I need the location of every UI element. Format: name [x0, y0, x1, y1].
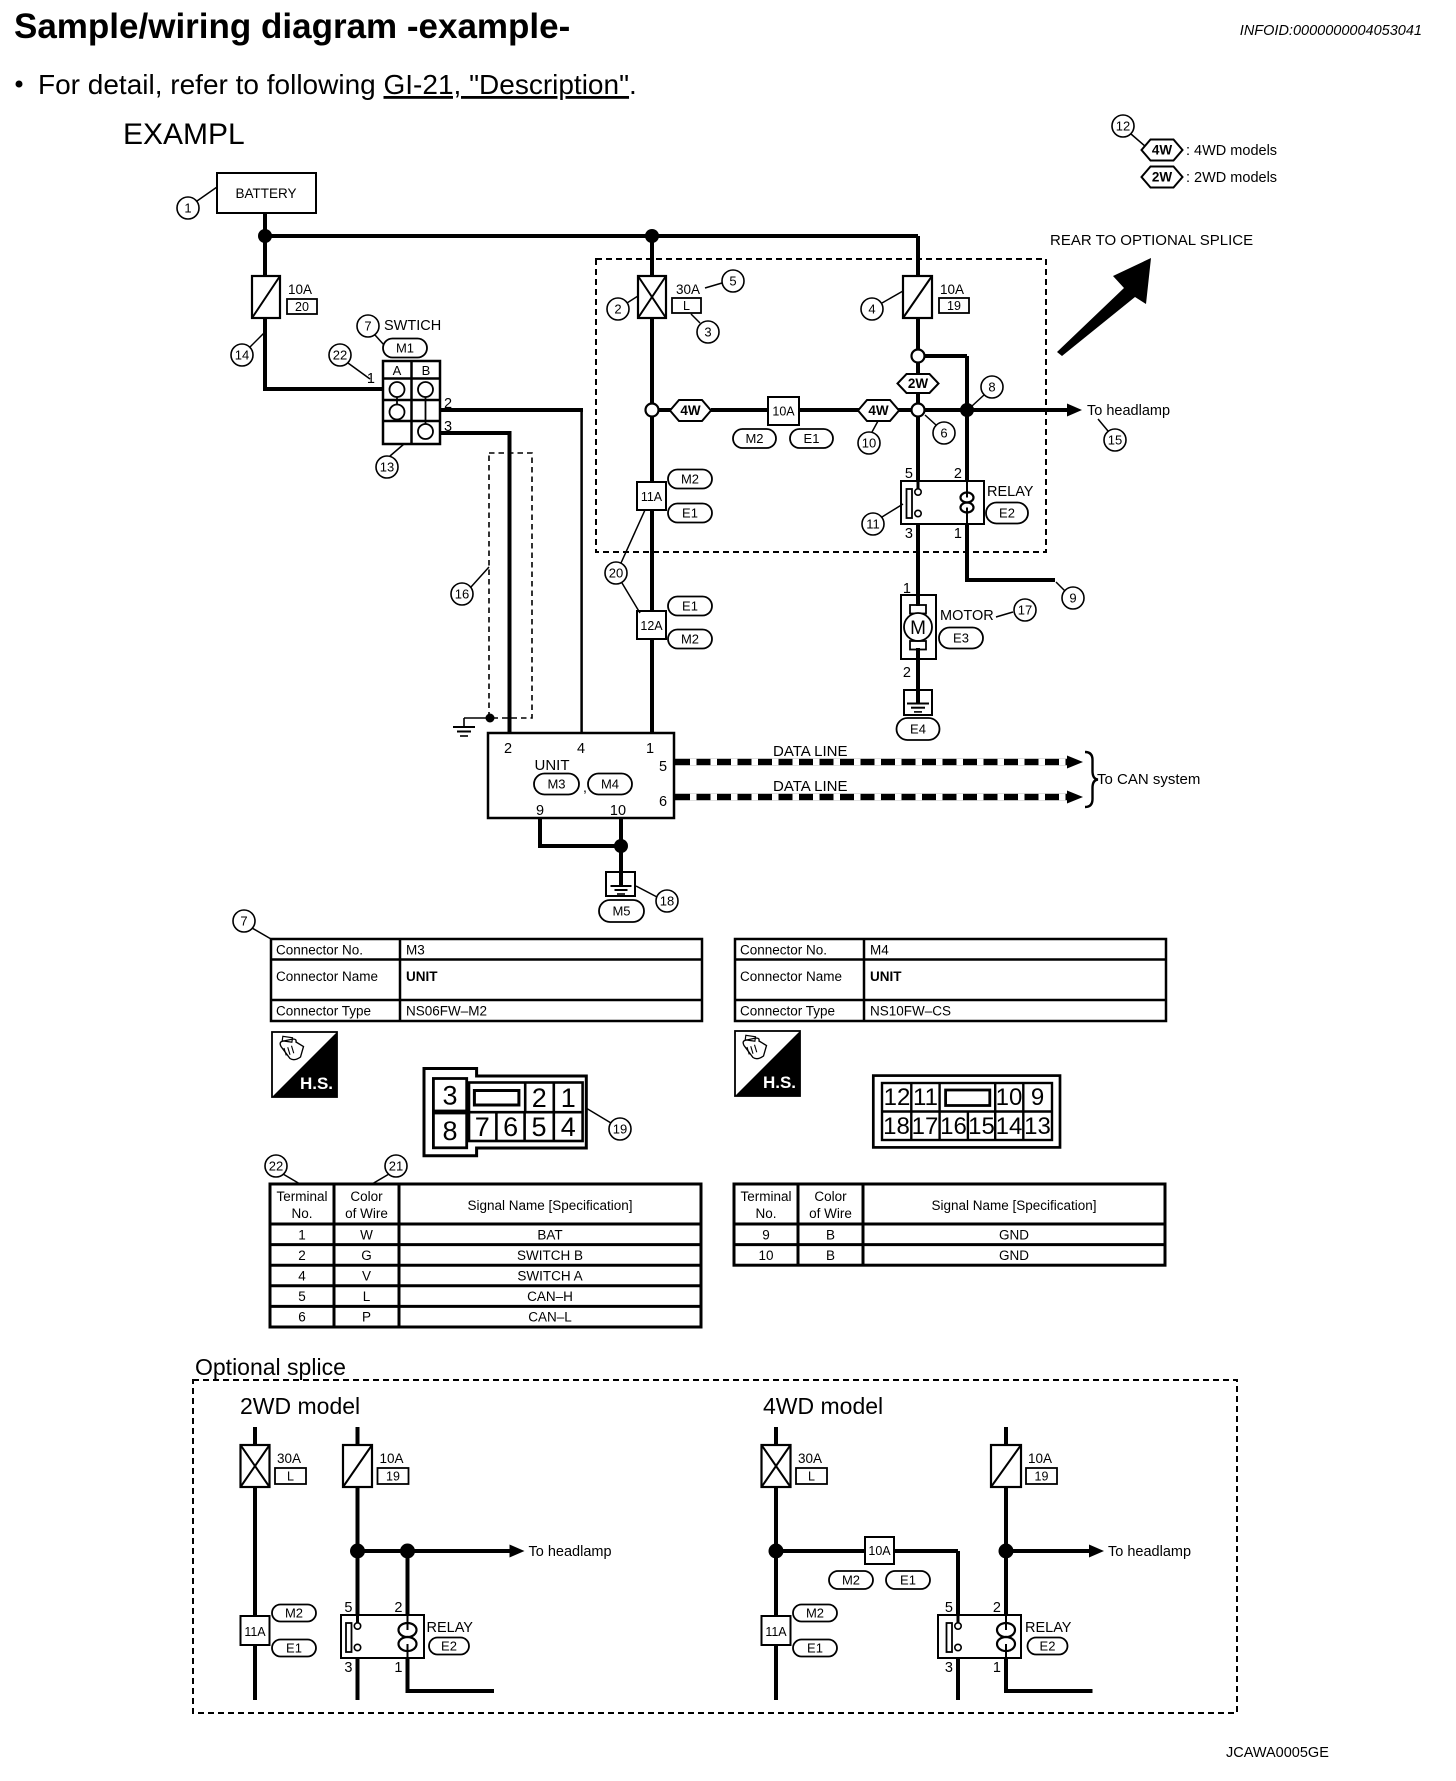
svg-text:NS06FW–M2: NS06FW–M2: [406, 1004, 487, 1019]
svg-text:E2: E2: [999, 506, 1015, 521]
svg-text:M2: M2: [681, 632, 699, 647]
svg-text:M2: M2: [842, 1573, 860, 1588]
svg-text:L: L: [287, 1470, 294, 1484]
svg-text:8: 8: [988, 380, 995, 395]
svg-text:GND: GND: [999, 1227, 1029, 1242]
svg-text:B: B: [826, 1248, 835, 1263]
svg-text:2W: 2W: [1152, 170, 1173, 185]
svg-text:Connector No.: Connector No.: [740, 943, 827, 958]
svg-text:E1: E1: [900, 1573, 916, 1588]
svg-text:UNIT: UNIT: [535, 757, 570, 774]
svg-text:E1: E1: [804, 431, 820, 446]
svg-text:30A: 30A: [798, 1451, 822, 1466]
svg-text:6: 6: [940, 426, 947, 441]
svg-text:EXAMPL: EXAMPL: [123, 118, 245, 151]
svg-text:13: 13: [380, 460, 394, 475]
svg-text:E3: E3: [953, 631, 969, 646]
svg-text:13: 13: [1024, 1113, 1051, 1140]
svg-text:1: 1: [646, 741, 654, 757]
svg-text:16: 16: [940, 1113, 967, 1140]
svg-text:8: 8: [443, 1116, 458, 1146]
svg-text:1: 1: [993, 1660, 1001, 1676]
svg-text:,: ,: [583, 779, 587, 795]
svg-text:6: 6: [503, 1112, 518, 1142]
svg-text:9: 9: [762, 1227, 770, 1242]
svg-text:10A: 10A: [1028, 1451, 1052, 1466]
svg-text:: 2WD models: : 2WD models: [1186, 170, 1277, 186]
svg-text:4: 4: [298, 1269, 306, 1284]
svg-text:L: L: [808, 1470, 815, 1484]
svg-text:M2: M2: [285, 1606, 303, 1621]
svg-text:4W: 4W: [1152, 143, 1173, 158]
svg-text:2: 2: [614, 302, 621, 317]
svg-text:12A: 12A: [640, 619, 663, 633]
svg-text:9: 9: [1031, 1084, 1044, 1111]
svg-text:G: G: [361, 1248, 372, 1263]
svg-text:Terminal: Terminal: [276, 1189, 327, 1204]
svg-text:H.S.: H.S.: [763, 1073, 796, 1092]
svg-text:DATA LINE: DATA LINE: [773, 743, 847, 760]
svg-text:2: 2: [903, 665, 911, 681]
svg-text:1: 1: [184, 201, 191, 216]
svg-text:M4: M4: [601, 777, 619, 792]
svg-text:15: 15: [1108, 433, 1122, 448]
svg-text:3: 3: [905, 526, 913, 542]
svg-text:6: 6: [298, 1310, 306, 1325]
svg-text:2: 2: [504, 741, 512, 757]
svg-text:UNIT: UNIT: [870, 969, 902, 984]
svg-text:E1: E1: [682, 599, 698, 614]
svg-text:of Wire: of Wire: [809, 1206, 852, 1221]
svg-text:7: 7: [475, 1112, 490, 1142]
svg-text:3: 3: [704, 325, 711, 340]
svg-text:5: 5: [298, 1289, 306, 1304]
svg-text:19: 19: [613, 1122, 627, 1137]
svg-text:M4: M4: [870, 943, 889, 958]
svg-text:SWITCH B: SWITCH B: [517, 1248, 583, 1263]
svg-text:M1: M1: [396, 341, 414, 356]
svg-text:No.: No.: [755, 1206, 776, 1221]
svg-text:2W: 2W: [908, 376, 929, 391]
svg-text:NS10FW–CS: NS10FW–CS: [870, 1004, 951, 1019]
svg-text:To headlamp: To headlamp: [1087, 403, 1170, 419]
svg-text:E1: E1: [682, 506, 698, 521]
svg-text:4W: 4W: [868, 403, 889, 418]
svg-text:GND: GND: [999, 1248, 1029, 1263]
svg-text:A: A: [393, 363, 402, 378]
svg-text:22: 22: [269, 1159, 283, 1174]
svg-text:9: 9: [1069, 591, 1076, 606]
svg-text:Color: Color: [814, 1189, 847, 1204]
svg-text:30A: 30A: [676, 282, 700, 297]
svg-text:11: 11: [866, 517, 880, 532]
svg-text:M2: M2: [806, 1606, 824, 1621]
svg-text:REAR TO OPTIONAL SPLICE: REAR TO OPTIONAL SPLICE: [1050, 232, 1253, 249]
svg-text:SWITCH A: SWITCH A: [517, 1269, 582, 1284]
svg-text:18: 18: [660, 894, 674, 909]
svg-text:17: 17: [1018, 603, 1032, 618]
svg-text:2: 2: [993, 1600, 1001, 1616]
svg-text:DATA LINE: DATA LINE: [773, 778, 847, 795]
svg-text:P: P: [362, 1310, 371, 1325]
svg-text:JCAWA0005GE: JCAWA0005GE: [1226, 1745, 1329, 1761]
svg-text:7: 7: [364, 319, 371, 334]
svg-text:To CAN system: To CAN system: [1097, 771, 1200, 788]
svg-text:5: 5: [659, 759, 667, 775]
svg-text:B: B: [422, 363, 431, 378]
svg-text:Optional splice: Optional splice: [195, 1354, 346, 1380]
svg-text:Color: Color: [350, 1189, 383, 1204]
svg-text:10A: 10A: [772, 405, 795, 419]
svg-text:2: 2: [532, 1083, 547, 1113]
svg-text:Connector Name: Connector Name: [740, 969, 842, 984]
svg-text:5: 5: [729, 274, 736, 289]
svg-text:of Wire: of Wire: [345, 1206, 388, 1221]
svg-text:14: 14: [235, 348, 249, 363]
svg-text:6: 6: [659, 794, 667, 810]
svg-text:21: 21: [389, 1159, 403, 1174]
svg-text:11A: 11A: [641, 490, 663, 504]
svg-text:9: 9: [536, 803, 544, 819]
svg-text:11A: 11A: [765, 1625, 787, 1639]
svg-text:12: 12: [884, 1084, 911, 1111]
svg-text:14: 14: [996, 1113, 1023, 1140]
svg-text:2WD model: 2WD model: [240, 1393, 360, 1419]
svg-text:To headlamp: To headlamp: [1108, 1544, 1191, 1560]
svg-text:M3: M3: [406, 943, 425, 958]
svg-text:For detail, refer to following: For detail, refer to following GI-21, "D…: [38, 69, 637, 100]
svg-text:Connector No.: Connector No.: [276, 943, 363, 958]
svg-text:5: 5: [905, 466, 913, 482]
svg-text:L: L: [683, 299, 690, 313]
svg-text:SWTICH: SWTICH: [384, 318, 441, 334]
svg-text:10: 10: [996, 1084, 1023, 1111]
svg-text:BATTERY: BATTERY: [235, 186, 296, 201]
svg-text:No.: No.: [291, 1206, 312, 1221]
svg-text:19: 19: [1035, 1470, 1049, 1484]
svg-text:INFOID:0000000004053041: INFOID:0000000004053041: [1240, 23, 1422, 39]
svg-text:4: 4: [868, 302, 875, 317]
svg-text:11A: 11A: [244, 1625, 266, 1639]
svg-text:Terminal: Terminal: [740, 1189, 791, 1204]
svg-text:V: V: [362, 1269, 371, 1284]
svg-text:E4: E4: [910, 722, 926, 737]
svg-text:E2: E2: [1040, 1639, 1056, 1654]
svg-text:E1: E1: [286, 1641, 302, 1656]
svg-text:3: 3: [443, 1080, 458, 1110]
svg-text:10: 10: [862, 436, 876, 451]
svg-text:10: 10: [610, 803, 626, 819]
svg-text:10A: 10A: [288, 282, 312, 297]
svg-text:W: W: [360, 1227, 373, 1242]
svg-text:RELAY: RELAY: [987, 484, 1034, 500]
svg-text:: 4WD models: : 4WD models: [1186, 143, 1277, 159]
svg-text:Connector Type: Connector Type: [740, 1004, 835, 1019]
svg-text:7: 7: [240, 914, 247, 929]
svg-text:11: 11: [913, 1084, 938, 1111]
svg-text:15: 15: [968, 1113, 995, 1140]
svg-text:1: 1: [954, 526, 962, 542]
svg-text:4WD model: 4WD model: [763, 1393, 883, 1419]
svg-text:3: 3: [344, 1660, 352, 1676]
svg-text:20: 20: [295, 300, 309, 314]
svg-text:E2: E2: [441, 1639, 457, 1654]
svg-text:4: 4: [577, 741, 585, 757]
svg-text:E1: E1: [807, 1641, 823, 1656]
svg-text:To headlamp: To headlamp: [529, 1544, 612, 1560]
svg-text:BAT: BAT: [537, 1227, 562, 1242]
svg-text:10A: 10A: [868, 1544, 891, 1558]
svg-text:CAN–H: CAN–H: [527, 1289, 573, 1304]
svg-text:20: 20: [609, 566, 623, 581]
svg-text:M3: M3: [547, 777, 565, 792]
svg-text:Connector Name: Connector Name: [276, 969, 378, 984]
svg-text:5: 5: [531, 1112, 546, 1142]
svg-text:10: 10: [758, 1248, 773, 1263]
svg-text:Signal Name [Specification]: Signal Name [Specification]: [931, 1198, 1096, 1213]
svg-text:UNIT: UNIT: [406, 969, 438, 984]
svg-text:M5: M5: [612, 904, 630, 919]
svg-text:4W: 4W: [680, 403, 701, 418]
svg-text:1: 1: [298, 1227, 306, 1242]
svg-text:18: 18: [883, 1113, 910, 1140]
svg-text:1: 1: [561, 1083, 576, 1113]
svg-text:1: 1: [394, 1660, 402, 1676]
svg-text:H.S.: H.S.: [300, 1074, 333, 1093]
svg-text:4: 4: [561, 1112, 576, 1142]
svg-text:10A: 10A: [940, 282, 964, 297]
svg-text:M: M: [910, 618, 926, 639]
svg-text:10A: 10A: [380, 1451, 404, 1466]
svg-text:30A: 30A: [277, 1451, 301, 1466]
svg-text:19: 19: [386, 1470, 400, 1484]
svg-text:5: 5: [945, 1600, 953, 1616]
svg-text:Sample/wiring diagram -example: Sample/wiring diagram -example-: [14, 7, 570, 46]
svg-text:12: 12: [1116, 119, 1130, 134]
svg-text:2: 2: [954, 466, 962, 482]
svg-text:B: B: [826, 1227, 835, 1242]
svg-text:L: L: [363, 1289, 371, 1304]
svg-text:CAN–L: CAN–L: [528, 1310, 572, 1325]
svg-text:22: 22: [333, 348, 347, 363]
svg-text:2: 2: [298, 1248, 306, 1263]
svg-text:M2: M2: [681, 472, 699, 487]
svg-text:5: 5: [344, 1600, 352, 1616]
svg-text:RELAY: RELAY: [427, 1620, 474, 1636]
svg-text:RELAY: RELAY: [1025, 1620, 1072, 1636]
svg-text:M2: M2: [745, 431, 763, 446]
svg-text:16: 16: [455, 587, 469, 602]
svg-text:3: 3: [945, 1660, 953, 1676]
svg-text:17: 17: [912, 1113, 939, 1140]
svg-text:1: 1: [367, 371, 375, 387]
svg-text:19: 19: [947, 299, 961, 313]
svg-text:Signal Name [Specification]: Signal Name [Specification]: [467, 1198, 632, 1213]
svg-text:MOTOR: MOTOR: [940, 608, 994, 624]
svg-text:2: 2: [394, 1600, 402, 1616]
svg-text:Connector Type: Connector Type: [276, 1004, 371, 1019]
